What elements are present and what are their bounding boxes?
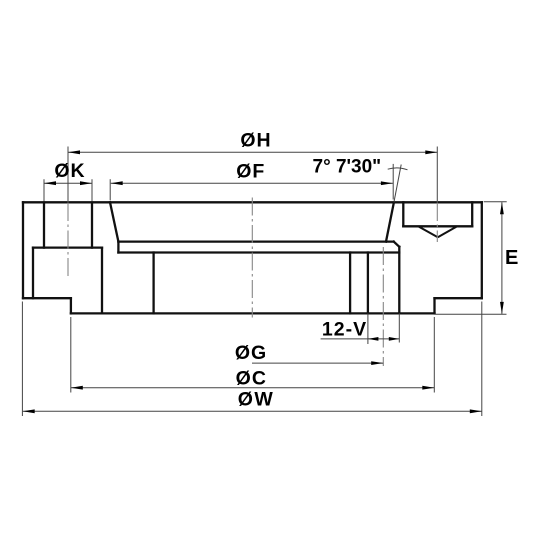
dimension ØH — [68, 150, 437, 154]
centerline main axis — [251, 198, 253, 318]
top face — [23, 201, 482, 203]
taper wall right — [386, 202, 394, 241]
svg-text:ØF: ØF — [236, 160, 265, 182]
rim chamfer right — [394, 242, 400, 247]
ext ØW left — [21, 302, 23, 417]
ledge underside — [118, 251, 399, 253]
ØK hole left wall — [43, 202, 45, 247]
recess seat bottom — [118, 240, 393, 242]
svg-text:ØH: ØH — [240, 130, 271, 152]
bolt hole left wall — [367, 253, 369, 314]
left step horizontal — [23, 297, 71, 299]
counterbore bottom — [403, 225, 472, 227]
ext angle vertical ref — [392, 164, 394, 200]
dimension 12-V — [321, 337, 400, 341]
dimension ØW — [23, 409, 482, 413]
svg-text:ØG: ØG — [235, 342, 267, 364]
bottom face — [71, 312, 435, 314]
drill point cone — [418, 226, 457, 237]
centerline left boss — [67, 147, 69, 277]
dimension ØF — [111, 181, 393, 185]
ØK hole right wall — [91, 202, 93, 247]
ext ØC right — [433, 317, 435, 393]
dimension ØG — [252, 361, 383, 365]
centerline right hole — [436, 147, 438, 243]
ext ØW right — [481, 302, 483, 417]
dimension E — [500, 202, 504, 314]
svg-text:ØK: ØK — [54, 160, 85, 182]
ext E bottom — [435, 313, 507, 315]
left counterbore right wall — [101, 248, 103, 314]
extension lines — [22, 164, 506, 416]
svg-text:E: E — [505, 247, 518, 269]
ext ØF left — [109, 179, 111, 200]
ext 12-V right — [398, 313, 400, 342]
ext ØC left — [70, 317, 72, 393]
right outer edge — [481, 202, 483, 298]
seat rim left edge — [117, 242, 119, 253]
counterbore left wall — [402, 202, 404, 226]
ext taper extended — [394, 165, 401, 203]
taper wall left — [110, 202, 118, 241]
svg-text:ØC: ØC — [236, 368, 267, 390]
hub right wall — [349, 253, 351, 314]
ext 12-V left — [367, 313, 369, 344]
left counterbore left wall — [32, 248, 34, 299]
part outline — [23, 202, 482, 313]
ext E top — [484, 201, 507, 203]
counterbore right wall — [471, 202, 473, 226]
ext ØK left — [43, 179, 45, 201]
right step horizontal — [435, 297, 482, 299]
dimension ØC — [71, 386, 435, 390]
hub left wall — [152, 253, 154, 314]
angle arc — [388, 168, 408, 170]
right step vertical — [433, 298, 435, 313]
svg-text:7° 7'30": 7° 7'30" — [313, 157, 382, 178]
left step vertical — [70, 298, 72, 313]
bolt hole right wall — [398, 247, 400, 314]
left counterbore top — [33, 246, 102, 248]
svg-text:12-V: 12-V — [322, 318, 367, 340]
ext ØK right — [91, 179, 93, 201]
centerline bolt hole 12-V — [382, 247, 384, 366]
svg-text:ØW: ØW — [238, 389, 275, 411]
dimension ØK — [44, 181, 92, 185]
left outer edge — [22, 202, 24, 298]
